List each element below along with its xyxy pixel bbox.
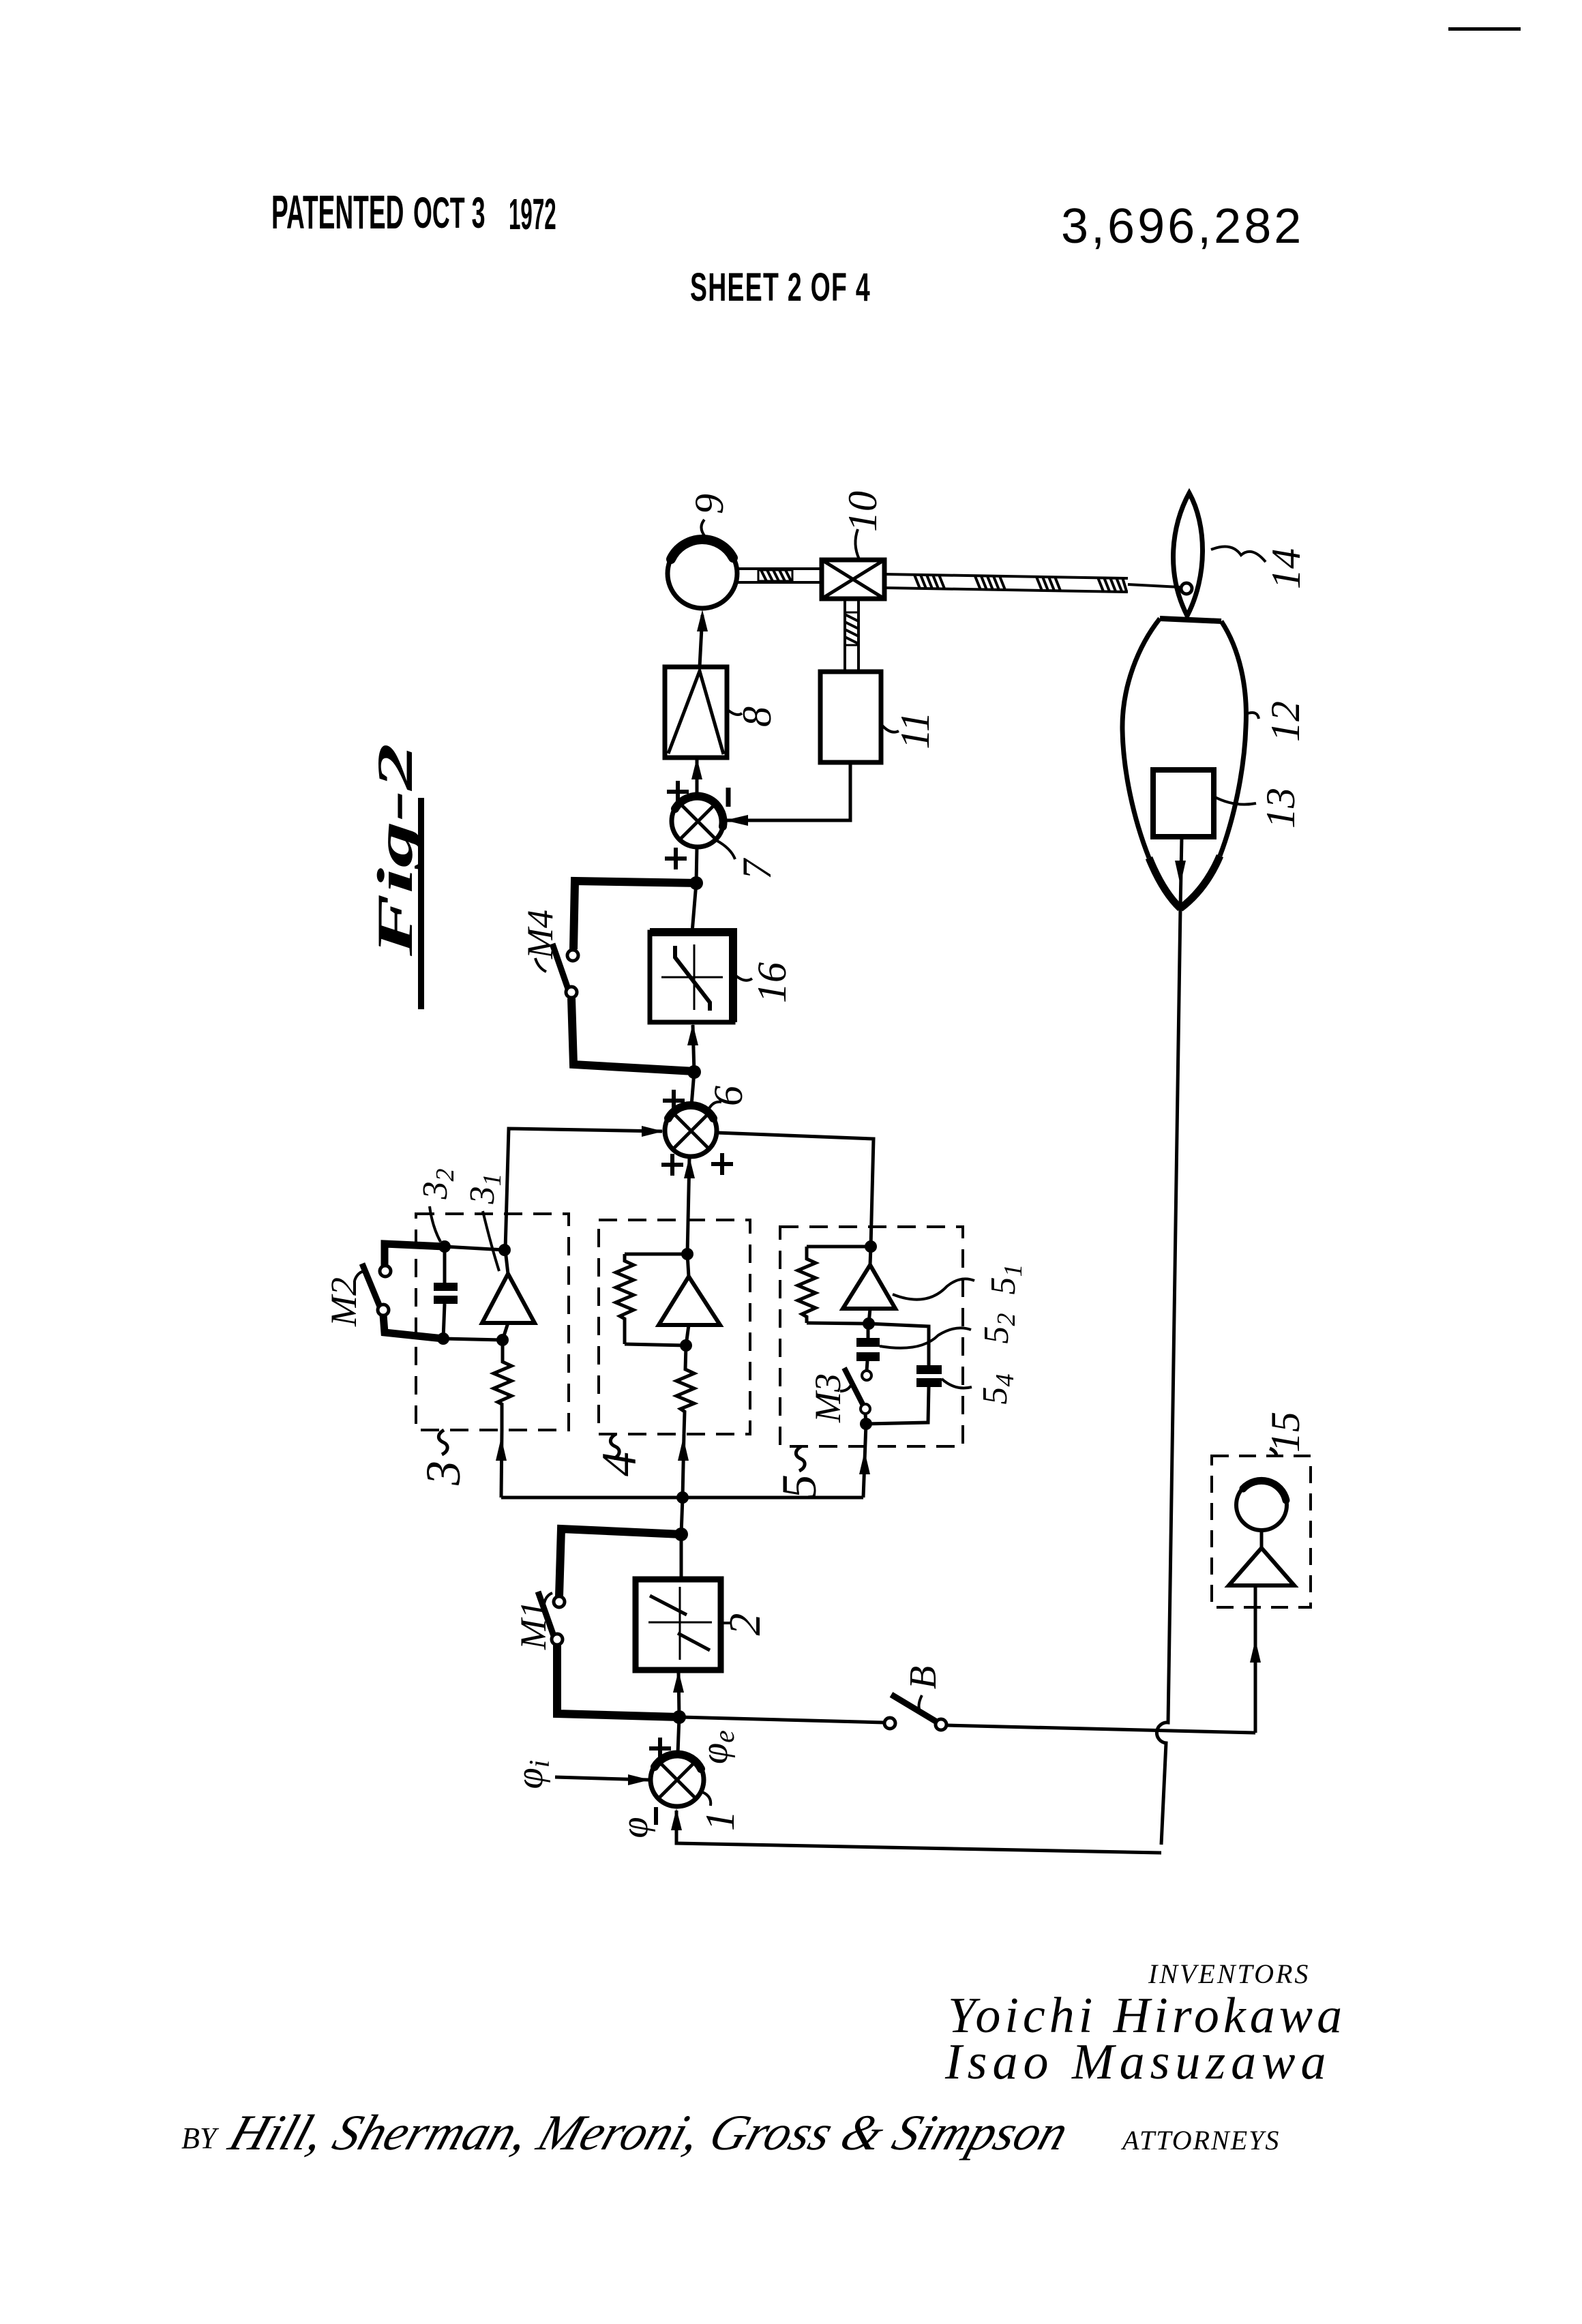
dead-zone box 2: [636, 1579, 721, 1670]
node (M1 bypass bottom): [672, 1710, 686, 1724]
svg-text:M3: M3: [807, 1373, 848, 1423]
svg-text:M4: M4: [520, 910, 561, 959]
top-right scan mark: [1448, 27, 1521, 31]
label 32: [416, 1169, 460, 1242]
wire: block 4 output up to junction 6 with arrow: [684, 1157, 695, 1254]
node (amp 4 input): [680, 1339, 692, 1352]
svg-text:BY: BY: [181, 2121, 220, 2155]
gyro triangle (block 15): [1229, 1548, 1294, 1585]
label phi-e: [693, 1730, 741, 1764]
node (cap 32 bottom): [437, 1332, 449, 1345]
wire: riser to block 15 with arrow: [1250, 1585, 1261, 1733]
wire: feedback bottom (block 5): [807, 1323, 869, 1324]
wire: amp 5 input: [869, 1309, 870, 1324]
node (amp 31 input): [496, 1334, 509, 1346]
label 15: [1263, 1412, 1308, 1457]
wire: box 13 down to ship stern with arrow: [1175, 837, 1186, 908]
svg-text:Hill, Sherman, Meroni, Gross &: Hill, Sherman, Meroni, Gross & Simpson: [222, 2105, 1075, 2161]
plus sign (7 upper-left): [667, 781, 689, 803]
arrow into junction 1 bottom: [671, 1808, 682, 1830]
label 31: [463, 1174, 507, 1272]
svg-text:9: 9: [687, 494, 732, 514]
label 8: [727, 706, 779, 727]
label 3: [416, 1430, 471, 1486]
wire: box 8 to circle 9 with arrow: [697, 610, 708, 667]
rudder 14 (lens): [1174, 493, 1203, 616]
label 16: [733, 962, 794, 1003]
M3 switch blade: [844, 1368, 863, 1405]
wire: feedback top (block 3): [445, 1247, 505, 1250]
shaft hatch segment: [758, 570, 792, 581]
vertical shaft hatch: [845, 612, 859, 645]
wire: feedback bottom (block 4): [625, 1344, 686, 1345]
label 52: [880, 1313, 1021, 1348]
node (amp 31 output): [498, 1244, 511, 1256]
B contact circles: [884, 1718, 895, 1729]
wire: junction 7 down to M4 node: [696, 847, 697, 883]
distribution wire to blocks 3,4,5: [501, 1496, 863, 1500]
svg-text:10: 10: [840, 491, 885, 532]
wire: node to capacitor 32: [443, 1247, 447, 1283]
plus sign (6 upper-left): [663, 1090, 685, 1112]
M1 leader: [544, 1593, 552, 1604]
dashed box (PID block 3): [416, 1214, 569, 1430]
wire: feedback top (block 5): [807, 1245, 871, 1249]
plus sign (7 lower-left): [665, 848, 687, 869]
node (M1 bypass top): [674, 1528, 688, 1541]
svg-text:5: 5: [772, 1474, 826, 1499]
wire: amp 31 input: [503, 1323, 508, 1340]
wire: M4 node up into box 16 with arrow: [687, 1024, 698, 1072]
M2 leader: [355, 1271, 364, 1281]
wire: feedback top (block 4): [625, 1253, 687, 1256]
capacitor 52: [856, 1324, 880, 1371]
label 51: [893, 1264, 1028, 1300]
node (cap 32 top): [438, 1240, 451, 1253]
node (amp 5 output): [865, 1240, 877, 1253]
label 7: [716, 840, 779, 880]
wire: junction 7 to box 8 with arrow: [691, 758, 702, 795]
label M3: [807, 1373, 852, 1423]
svg-text:1: 1: [698, 1811, 743, 1831]
op-amp 31 (block 3): [482, 1274, 535, 1323]
shaft gearbox 10 to rudder link: [884, 574, 1128, 592]
shaft hatch segments (right): [914, 575, 1126, 591]
wire: input arrow into block 4: [678, 1434, 689, 1498]
capacitor 32: [434, 1283, 458, 1304]
svg-text:B: B: [902, 1666, 944, 1689]
tachogenerator box 11: [820, 672, 881, 762]
switch M2 bypass (thick): [383, 1244, 445, 1339]
wire: capacitor 32 to bottom node: [443, 1304, 445, 1339]
node (block 5 bottom): [860, 1418, 872, 1430]
label B: [902, 1666, 944, 1709]
wire: junction 6 right to block 5 top: [717, 1133, 874, 1247]
wire: distribution node down to M1 node: [681, 1498, 683, 1534]
label 11: [881, 711, 938, 749]
op-amp (block 4): [659, 1277, 720, 1325]
svg-text:3: 3: [416, 1461, 471, 1486]
svg-text:M1: M1: [513, 1600, 554, 1650]
wire: junction 1 up to M1 bottom node: [678, 1717, 679, 1753]
switch B wire from M1 node: [679, 1717, 884, 1723]
wire: box 16 top to M4 top node: [692, 883, 696, 932]
wire: phi-i input with arrow: [555, 1774, 650, 1785]
label 14: [1211, 547, 1309, 590]
wire: input arrow into block 3: [496, 1430, 507, 1498]
dashed box (P block 4): [599, 1220, 750, 1434]
feedback resistor (block 5): [798, 1247, 816, 1323]
wire: M1 bottom node up into box 2 with arrow: [673, 1671, 684, 1717]
svg-text:Isao Masuzawa: Isao Masuzawa: [944, 2034, 1332, 2090]
gearbox 10: [822, 560, 884, 599]
wire: input arrow into block 5: [859, 1424, 870, 1498]
label 12: [1248, 701, 1308, 742]
wire: M3 to bottom node: [865, 1414, 866, 1424]
feedback resistor (block 4): [616, 1254, 633, 1344]
amplifier box 8: [665, 667, 727, 758]
label 9: [687, 494, 732, 537]
wire: amp 31 apex to output node: [505, 1250, 508, 1274]
svg-text:12: 12: [1263, 701, 1308, 742]
feedback wire bottom run: [676, 1811, 1161, 1853]
svg-text:13: 13: [1258, 788, 1303, 829]
label M4: [520, 910, 561, 972]
switch M1 bypass (thick): [557, 1529, 681, 1717]
label 13: [1214, 788, 1303, 829]
svg-text:φ: φ: [614, 1817, 656, 1838]
node (amp 4 output): [681, 1248, 693, 1260]
svg-text:M2: M2: [323, 1277, 364, 1327]
capacitor 54: [916, 1365, 942, 1387]
wire: feedback bottom (block 3): [443, 1339, 503, 1340]
wire: cap 54 branch top: [869, 1324, 929, 1365]
shaft circle 9 to gearbox 10: [736, 569, 822, 582]
label 10: [840, 491, 885, 559]
svg-text:11: 11: [893, 711, 938, 749]
plus sign (6 lower-right): [711, 1153, 733, 1175]
svg-text:INVENTORS: INVENTORS: [1148, 1958, 1310, 1989]
plus sign (1 upper-left): [649, 1738, 671, 1759]
switch M4 bypass (thick): [571, 881, 696, 1071]
svg-text:7: 7: [734, 857, 779, 880]
Fig-2 title (rotated): [368, 743, 424, 1009]
op-amp 51 (block 5): [843, 1265, 895, 1309]
B switch blade: [891, 1695, 936, 1721]
wire: box 2 top to M1 node: [680, 1534, 683, 1579]
svg-text:1972: 1972: [509, 190, 556, 239]
node (distribution): [676, 1491, 689, 1504]
limiter box 16: [650, 932, 733, 1022]
resistor (block 4 input): [676, 1345, 694, 1434]
wire: box 11 to junction 7 with arrow: [725, 762, 850, 826]
wire: block 3 output to junction 6 left input with arrow: [505, 1126, 663, 1250]
compass box 13: [1153, 770, 1214, 837]
node (7 / M4 bypass top): [689, 876, 703, 890]
node (M4 bypass bottom): [687, 1065, 701, 1079]
wire: gyro circle to triangle: [1260, 1530, 1264, 1548]
label 6: [706, 1086, 751, 1112]
vertical drive shaft gearbox 10 to motor 11: [845, 599, 859, 672]
label 1: [698, 1792, 743, 1831]
wire: junction 6 up to M4 bottom node: [691, 1072, 694, 1105]
wire: amp 4 input: [686, 1325, 689, 1345]
plus sign (6 lower-left): [661, 1154, 683, 1176]
M4 contact circles: [567, 950, 578, 961]
label 4: [592, 1434, 646, 1476]
dashed box (PD block 5): [780, 1227, 963, 1446]
M1 contact circles: [554, 1596, 565, 1607]
FOOTER TEXT: [181, 1958, 1346, 2161]
summing junction 6: [665, 1105, 717, 1157]
summing junction 1: [651, 1753, 704, 1806]
svg-text:14: 14: [1264, 548, 1309, 589]
label 2: [720, 1613, 770, 1636]
svg-text:3,696,282: 3,696,282: [1061, 199, 1304, 254]
ship hull 12: [1122, 619, 1246, 908]
motor M (circle) 9: [668, 539, 737, 608]
wire: B switch to block 15 riser: [946, 1725, 1255, 1733]
M2 switch blade: [362, 1264, 380, 1307]
wire: amp 4 apex to output node: [687, 1254, 689, 1277]
svg-text:16: 16: [749, 962, 794, 1003]
gyro circle (block 15): [1236, 1480, 1287, 1530]
wire: amp 5 apex to output node: [870, 1247, 871, 1265]
rudder pivot: [1181, 583, 1192, 594]
patented date stamp: [271, 27, 1521, 310]
label 54: [942, 1374, 1019, 1405]
resistor (block 3 input): [494, 1340, 511, 1430]
dashed box (gyrocompass block 15): [1212, 1456, 1311, 1607]
M2 contact circles: [380, 1266, 391, 1277]
label 5: [772, 1446, 826, 1499]
link rod to rudder pivot: [1128, 584, 1180, 587]
svg-text:15: 15: [1263, 1412, 1308, 1452]
svg-text:PATENTED: PATENTED: [271, 185, 404, 239]
label phi minus (feedback): [614, 1807, 656, 1838]
svg-text:OCT 3: OCT 3: [413, 188, 486, 237]
ship feedback wire down with hop: [1156, 908, 1180, 1845]
node (amp 5 input): [863, 1317, 875, 1330]
M1 switch blade: [538, 1592, 554, 1636]
wire: cap 54 branch bottom: [866, 1387, 929, 1424]
svg-text:SHEET 2 OF 4: SHEET 2 OF 4: [690, 266, 871, 310]
svg-text:Fig-2: Fig-2: [368, 743, 423, 957]
minus sign (7 right, rotated): [726, 788, 731, 807]
summing junction 7: [672, 795, 723, 847]
svg-text:ATTORNEYS: ATTORNEYS: [1120, 2125, 1280, 2156]
M4 switch blade: [552, 944, 568, 989]
svg-text:8: 8: [734, 706, 779, 727]
M3 contact circles: [862, 1371, 871, 1380]
